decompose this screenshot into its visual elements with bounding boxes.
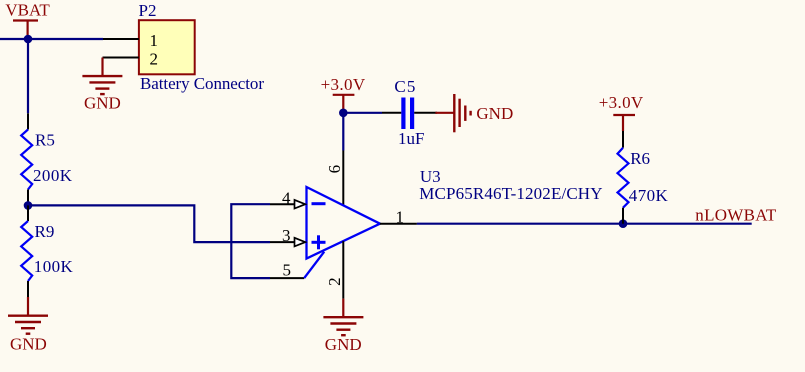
wire down from junction — [27, 39, 29, 113]
ground GND (right of C5, rotated) — [435, 94, 513, 132]
svg-text:1: 1 — [396, 207, 405, 226]
wire input loop (pins 4,3,5) — [231, 204, 270, 278]
svg-text:nLOWBAT: nLOWBAT — [695, 206, 777, 225]
svg-text:P2: P2 — [139, 1, 157, 20]
power port +3.0V (right) — [599, 93, 644, 131]
pin 5 — [270, 277, 304, 279]
pin 1 — [380, 223, 417, 225]
capacitor C5 — [382, 77, 437, 148]
ground GND (under op-amp) — [323, 299, 363, 354]
plus symbol — [312, 241, 326, 244]
junction D (R6/output) — [619, 219, 628, 228]
svg-text:6: 6 — [325, 165, 344, 174]
svg-text:R9: R9 — [35, 222, 55, 241]
pin 1 — [103, 38, 139, 40]
junction C (+3.0V node) — [339, 109, 348, 118]
svg-text:1: 1 — [150, 31, 159, 50]
svg-text:GND: GND — [325, 335, 362, 354]
svg-text:GND: GND — [476, 104, 513, 123]
resistor R9 — [21, 205, 73, 297]
svg-text:C5: C5 — [394, 77, 415, 96]
svg-text:MCP65R46T-1202E/CHY: MCP65R46T-1202E/CHY — [419, 184, 602, 203]
svg-text:R6: R6 — [630, 149, 650, 168]
minus symbol — [312, 202, 326, 205]
wire junction B to op-amp loop — [28, 205, 270, 242]
svg-text:1uF: 1uF — [398, 129, 424, 148]
svg-text:5: 5 — [283, 261, 292, 280]
svg-text:+3.0V: +3.0V — [599, 93, 644, 112]
svg-text:3: 3 — [282, 226, 291, 245]
triangle body — [307, 187, 381, 259]
op-amp U3 — [270, 151, 603, 299]
svg-text:4: 4 — [282, 189, 291, 208]
junction B (R5/R9) — [24, 201, 33, 210]
resistor R6 — [618, 131, 669, 224]
svg-text:100K: 100K — [34, 257, 74, 276]
power port +3.0V (middle) — [321, 75, 366, 113]
power port VBAT — [5, 1, 50, 40]
ground GND (bottom left) — [8, 297, 48, 354]
connector P2 — [103, 1, 265, 93]
svg-text:2: 2 — [150, 50, 159, 69]
svg-text:GND: GND — [10, 335, 47, 354]
svg-text:200K: 200K — [33, 166, 73, 185]
pin 6 — [342, 151, 344, 206]
pin 2 — [103, 57, 139, 59]
pin 3 — [270, 241, 295, 243]
ground GND (under P2) — [82, 58, 122, 113]
svg-text:VBAT: VBAT — [5, 1, 50, 20]
resistor R5 — [21, 113, 73, 205]
svg-text:470K: 470K — [629, 186, 669, 205]
wire output net nLOWBAT — [417, 223, 752, 225]
pin 2 — [342, 241, 344, 299]
wire VBAT horizontal — [0, 38, 103, 40]
svg-text:2: 2 — [325, 277, 344, 286]
wire junction C to C5 — [343, 112, 382, 114]
svg-text:Battery Connector: Battery Connector — [140, 74, 264, 93]
junction A — [24, 35, 33, 44]
pin 4 — [270, 203, 295, 205]
wire junction C down to op-amp pin 6 — [342, 113, 344, 151]
svg-text:GND: GND — [84, 94, 121, 113]
svg-text:+3.0V: +3.0V — [321, 75, 366, 94]
svg-text:R5: R5 — [35, 130, 55, 149]
